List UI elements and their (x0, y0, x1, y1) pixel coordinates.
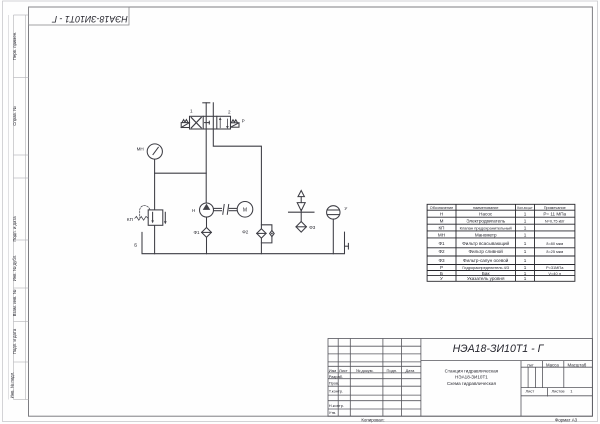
svg-text:V=40 л: V=40 л (548, 271, 561, 276)
right part horizontals (421, 360, 593, 362)
svg-text:Изм: Изм (329, 368, 337, 373)
svg-text:Примечание: Примечание (544, 206, 566, 210)
relief valve pilot line (dashed) (140, 206, 150, 218)
svg-text:КП: КП (127, 217, 133, 222)
svg-text:Масштаб: Масштаб (568, 362, 587, 367)
svg-text:НЭА18-ЗИ10Т1 - Г: НЭА18-ЗИ10Т1 - Г (453, 343, 545, 355)
valve left position crossed arrows (191, 118, 201, 128)
svg-text:НЭА18-ЗИ10Т1: НЭА18-ЗИ10Т1 (455, 374, 488, 379)
svg-text:1: 1 (524, 219, 527, 224)
svg-text:Фильтр-сапун осевой: Фильтр-сапун осевой (463, 257, 509, 263)
svg-text:Указатель уровня: Указатель уровня (467, 276, 505, 281)
left margin column lines (9, 15, 29, 400)
tank (142, 232, 345, 254)
valve centre position blocked port (205, 122, 210, 124)
wire: gauge branch to P line (155, 172, 207, 174)
svg-text:Кол-во,шт: Кол-во,шт (517, 206, 533, 210)
svg-text:Подп.: Подп. (387, 368, 398, 373)
svg-text:Взам. инв. №: Взам. инв. № (12, 289, 17, 316)
svg-text:Р: Р (440, 265, 443, 270)
wire: level gauge stem (332, 219, 334, 254)
svg-text:Обозначение: Обозначение (430, 206, 453, 210)
breather F3 triangles (298, 191, 304, 197)
wire: F1 to tank (206, 237, 208, 253)
svg-text:Подп. и дата: Подп. и дата (12, 216, 17, 242)
svg-text:У: У (344, 206, 347, 211)
breather mounting line (289, 211, 315, 213)
svg-text:Р= 11 МПа: Р= 11 МПа (543, 212, 566, 217)
level gauge U (327, 206, 340, 219)
solenoid right (231, 123, 240, 127)
svg-text:Клапан предохранительный: Клапан предохранительный (460, 225, 512, 230)
svg-text:Фильтр сливной: Фильтр сливной (469, 248, 504, 254)
svg-text:2: 2 (228, 109, 231, 114)
svg-text:Формат А3: Формат А3 (555, 418, 578, 423)
svg-text:1: 1 (524, 241, 527, 246)
top-left inverted designation cell (29, 7, 130, 25)
svg-text:№ докум.: № докум. (356, 368, 374, 373)
svg-text:Копировал:: Копировал: (361, 418, 384, 423)
svg-text:Н: Н (440, 212, 443, 217)
wire: relief valve to tank (154, 225, 156, 253)
relief valve side arrow (164, 212, 166, 222)
wire: breather stem (300, 210, 302, 222)
svg-text:Бак: Бак (482, 271, 491, 276)
svg-text:1: 1 (524, 271, 527, 276)
svg-text:Инв. № подл.: Инв. № подл. (10, 372, 15, 399)
F2 bypass check valve (270, 230, 275, 236)
svg-text:1: 1 (524, 212, 527, 217)
F2 bypass loop (261, 225, 272, 231)
filter F2 (257, 229, 266, 238)
wire: P line valve to pump (205, 129, 207, 203)
revision rows (328, 345, 421, 347)
svg-text:1: 1 (524, 232, 527, 237)
title block small labels (329, 362, 587, 415)
svg-text:Гидрораспределитель 4/3: Гидрораспределитель 4/3 (462, 265, 509, 270)
coupling shaft pump-motor (214, 207, 222, 209)
svg-text:наименование: наименование (473, 206, 499, 210)
svg-text:Справ. №: Справ. № (12, 106, 17, 126)
svg-text:Лист: Лист (526, 389, 535, 394)
svg-text:Станция гидравлическая: Станция гидравлическая (445, 368, 499, 373)
left section verticals (337, 339, 339, 417)
svg-text:Р: Р (242, 118, 245, 123)
svg-text:Б: Б (440, 271, 443, 276)
svg-text:Инв. № дубл.: Инв. № дубл. (12, 255, 17, 282)
svg-text:Т.контр.: Т.контр. (329, 388, 344, 393)
wire: T line valve down right to filter F2 (213, 129, 261, 229)
svg-text:1: 1 (524, 225, 527, 230)
svg-text:1: 1 (524, 258, 527, 263)
svg-text:Б: Б (134, 243, 137, 248)
valve right position arrows (219, 117, 229, 129)
svg-text:Манометр: Манометр (475, 232, 497, 237)
svg-text:Перв. примен.: Перв. примен. (12, 32, 17, 61)
svg-text:Подп. и дата: Подп. и дата (12, 328, 17, 354)
svg-text:Ф3: Ф3 (309, 225, 315, 230)
relief valve KP body (148, 210, 163, 225)
svg-text:Насос: Насос (479, 212, 493, 217)
schematic labels (127, 109, 348, 248)
svg-text:У: У (440, 276, 443, 281)
svg-text:Дата: Дата (406, 368, 416, 373)
svg-text:Ф3: Ф3 (438, 258, 444, 263)
title block name (445, 368, 499, 385)
svg-text:Н: Н (192, 208, 195, 213)
svg-text:МН: МН (438, 232, 445, 237)
plug cap on port A (203, 102, 210, 104)
svg-text:Ф2: Ф2 (242, 229, 248, 234)
svg-text:1: 1 (524, 249, 527, 254)
filter F1 (202, 228, 212, 238)
svg-text:Пров.: Пров. (329, 381, 340, 386)
svg-text:МН: МН (137, 147, 144, 152)
relief valve internal arrow (152, 212, 154, 222)
tank capped port (345, 245, 349, 247)
wire: F2 to tank (260, 238, 262, 254)
svg-text:М: М (243, 207, 247, 213)
svg-text:Листов: Листов (552, 389, 565, 394)
svg-text:Схема гидравлическая: Схема гидравлическая (447, 381, 497, 386)
svg-text:Ф2: Ф2 (438, 249, 444, 254)
svg-text:Р=31МПа: Р=31МПа (546, 265, 564, 270)
svg-text:Разраб.: Разраб. (329, 374, 343, 379)
svg-text:Ф1: Ф1 (194, 230, 200, 235)
gauge MN (147, 144, 162, 159)
svg-text:N=0,75 кВт: N=0,75 кВт (545, 219, 565, 224)
svg-text:Н.контр.: Н.контр. (329, 403, 344, 408)
svg-text:1: 1 (524, 276, 527, 281)
wire: pump suction (206, 217, 208, 228)
motor M (237, 202, 253, 218)
wire: gauge stem / relief valve line (154, 159, 156, 210)
svg-text:М: М (440, 219, 444, 224)
wire: port A up from valve (205, 103, 207, 129)
left margin rotated texts (10, 32, 18, 399)
pump N (200, 203, 214, 217)
svg-text:1: 1 (190, 109, 193, 114)
svg-text:Ф1: Ф1 (438, 241, 444, 246)
wire: port B up from valve (212, 103, 214, 129)
svg-text:δ=25 мкм: δ=25 мкм (546, 249, 563, 254)
filter F3 (296, 222, 306, 233)
svg-text:Лит: Лит (527, 362, 534, 367)
valve R body (190, 116, 231, 129)
svg-text:НЭА18-ЗИ10Т1 - Г: НЭА18-ЗИ10Т1 - Г (51, 14, 128, 24)
svg-text:Фильтр всасывающий: Фильтр всасывающий (462, 240, 509, 246)
svg-text:КП: КП (439, 225, 445, 230)
svg-text:Электродвигатель: Электродвигатель (466, 219, 505, 224)
solenoid left (181, 123, 189, 128)
svg-text:Масса: Масса (546, 362, 559, 367)
svg-text:Лист: Лист (339, 368, 348, 373)
right part verticals (520, 361, 522, 417)
svg-text:1: 1 (524, 265, 527, 270)
relief valve spring (135, 216, 148, 220)
svg-text:Утв.: Утв. (329, 410, 337, 415)
svg-text:δ=80 мкм: δ=80 мкм (546, 241, 563, 246)
